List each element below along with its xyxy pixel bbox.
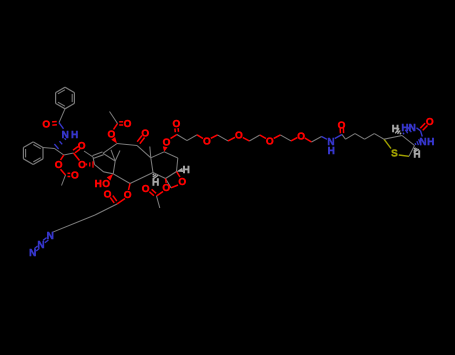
- svg-text:H: H: [392, 124, 399, 135]
- bond C4-C3a: [409, 146, 415, 157]
- bond C2-C6a: [384, 136, 402, 140]
- bond 4-acetyl CH3: [157, 196, 160, 208]
- hash C6a-H: [400, 133, 401, 135]
- svg-text:O: O: [108, 129, 116, 140]
- bond O3-CH2: [274, 135, 281, 139]
- svg-text:N: N: [62, 130, 69, 141]
- svg-text:H: H: [427, 137, 434, 148]
- C=O double bond benzamide: [52, 121, 57, 123]
- bond N1-C2 urea: [417, 128, 421, 131]
- bond O-C(=O) acetyl: [61, 169, 66, 175]
- bond C(=O)-N: [59, 123, 64, 129]
- bond CH2-O4: [291, 138, 297, 141]
- svg-text:O: O: [162, 183, 170, 194]
- hash C6a-N1: [403, 133, 404, 135]
- 10-acetyl C=O double: [119, 124, 123, 126]
- bond C7-C8: [151, 152, 164, 158]
- bond C5-O oxetane: [177, 172, 181, 178]
- svg-text:N: N: [37, 240, 44, 251]
- svg-text:O: O: [42, 119, 50, 130]
- svg-text:O: O: [102, 179, 110, 190]
- svg-text:O: O: [71, 171, 79, 182]
- svg-text:H: H: [95, 179, 102, 190]
- double bond C11=C12: [93, 152, 103, 156]
- bond C5-C6: [177, 158, 178, 172]
- N1=N2 double bond: [43, 238, 47, 241]
- bond CH2-C2 biotin: [374, 134, 384, 140]
- bond CH2-CH2: [187, 135, 197, 141]
- bond C3'-C2': [55, 149, 64, 156]
- bond CH2-O1: [197, 135, 203, 139]
- bond C3'-phenyl: [43, 148, 55, 149]
- svg-text:O: O: [55, 160, 63, 171]
- bond CH2-CH2: [249, 135, 259, 141]
- bond C12-C13: [93, 157, 95, 165]
- hash C3-H: [153, 174, 155, 175]
- svg-text:H: H: [413, 149, 420, 160]
- bold wedge C10-O: [111, 137, 117, 144]
- svg-text:N: N: [419, 137, 426, 148]
- bond C(=O)-CH2: [177, 135, 187, 141]
- bond O-C20 oxetane: [171, 185, 178, 188]
- bond N-C(=O): [335, 135, 342, 139]
- bond C3-C4: [153, 173, 166, 179]
- bond C8-CH3: [150, 147, 151, 158]
- hash N3-C3a: [414, 143, 417, 145]
- bond C9-C8: [137, 146, 151, 158]
- svg-text:O: O: [104, 189, 112, 200]
- svg-text:H: H: [328, 146, 335, 157]
- bond O4-CH2: [305, 138, 312, 142]
- bond C1-C15: [113, 161, 115, 174]
- urea C=O double bond: [423, 125, 428, 130]
- svg-text:N: N: [409, 123, 416, 134]
- bond C11-C10: [103, 144, 117, 154]
- bond phenyl-C(=O): [59, 109, 65, 123]
- bond C12-CH3: [84, 151, 93, 157]
- bond CH2-CH2: [355, 134, 365, 140]
- svg-text:H: H: [183, 165, 190, 176]
- C1'=O double bond: [75, 149, 80, 153]
- bond C15-CH3 b: [115, 151, 120, 162]
- svg-text:O: O: [203, 136, 211, 147]
- bond C14-C1: [104, 172, 114, 174]
- bond O-C(=O) 4-acetyl: [157, 192, 164, 197]
- bond S-C4: [399, 155, 409, 156]
- bond O1-CH2: [211, 135, 218, 138]
- long chain to azide: [52, 215, 95, 232]
- bond C2-O: [129, 184, 131, 191]
- bond C4-C5: [166, 172, 177, 179]
- svg-text:O: O: [178, 177, 186, 188]
- bond ester-CH2 chain: [95, 204, 117, 215]
- bond C3a-C6a ring fusion: [402, 136, 415, 146]
- bond C2'-O: [61, 155, 64, 160]
- svg-text:H: H: [71, 130, 78, 141]
- bond O-C(=O) azido ester: [117, 199, 125, 205]
- svg-text:O: O: [297, 131, 305, 142]
- svg-text:O: O: [78, 160, 86, 171]
- bond C10-C9: [117, 144, 137, 146]
- svg-text:H: H: [152, 177, 159, 188]
- svg-text:O: O: [124, 190, 132, 201]
- bond C8-C3: [151, 158, 153, 173]
- C9=O double bond: [140, 138, 145, 144]
- svg-text:O: O: [124, 119, 132, 130]
- bond C2-C1: [113, 174, 130, 184]
- bond CH2-CH2: [218, 135, 229, 141]
- svg-text:O: O: [142, 184, 150, 195]
- bond C(=O)-CH2: [342, 135, 346, 140]
- bond O-C(=O) 10-acetyl: [114, 124, 118, 130]
- bold wedge C1-OH: [107, 174, 114, 181]
- svg-text:H: H: [401, 123, 408, 134]
- bond C2-N3: [421, 131, 423, 137]
- linker C=O double bond: [177, 128, 179, 132]
- svg-text:O: O: [163, 137, 171, 148]
- 4-acetyl C=O double: [152, 189, 157, 193]
- azido-ester C=O double: [113, 196, 117, 202]
- bond C2'-C1': [64, 153, 74, 155]
- bond C3-C2: [130, 173, 153, 184]
- svg-text:N: N: [29, 248, 36, 259]
- phenyl ring on C3': [42, 148, 44, 159]
- phenyl ring of benzamide: [56, 103, 65, 108]
- biotin amide C=O double: [342, 128, 344, 133]
- bond C20-C4: [166, 179, 172, 188]
- svg-text:O: O: [141, 128, 149, 139]
- svg-text:N: N: [47, 231, 54, 242]
- svg-text:S: S: [391, 148, 398, 159]
- bond CH2-CH2: [312, 137, 322, 143]
- bond O2-CH2: [243, 138, 250, 142]
- svg-text:O: O: [338, 121, 346, 132]
- hash C3a-H: [414, 148, 416, 149]
- svg-text:O: O: [235, 131, 243, 142]
- bond C4-O: [165, 179, 168, 184]
- bond C2-S: [384, 139, 391, 148]
- wedge C5-H: [177, 168, 184, 172]
- svg-text:O: O: [266, 136, 274, 147]
- bond O-C(=O) linker: [171, 135, 177, 139]
- svg-text:O: O: [426, 117, 434, 128]
- hashed bond N-C3': [65, 138, 66, 140]
- bond CH2-CH2: [346, 134, 356, 140]
- bond C15-CH3 a: [111, 150, 115, 161]
- bond C1'-O ester: [74, 153, 80, 161]
- bond 10-acetyl CH3: [110, 112, 118, 124]
- bond CH2-N: [322, 137, 328, 140]
- svg-text:O: O: [78, 141, 86, 152]
- bond CH2-CH2: [365, 134, 375, 140]
- bond acetyl CH3: [62, 175, 66, 186]
- svg-text:O: O: [173, 119, 181, 130]
- bond CH2-O3: [260, 135, 266, 139]
- N2=N3 double bond: [34, 246, 37, 249]
- 2'-acetyl C=O double bond: [68, 176, 71, 178]
- bond C6-C7: [164, 152, 178, 158]
- bold wedge C7-O: [163, 146, 168, 152]
- bond CH2-O2: [228, 137, 235, 141]
- hashed bond O-C13: [86, 163, 88, 165]
- bond C13-C14: [95, 165, 104, 172]
- bond CH2-CH2: [280, 135, 291, 141]
- bond C15-C11: [103, 153, 115, 161]
